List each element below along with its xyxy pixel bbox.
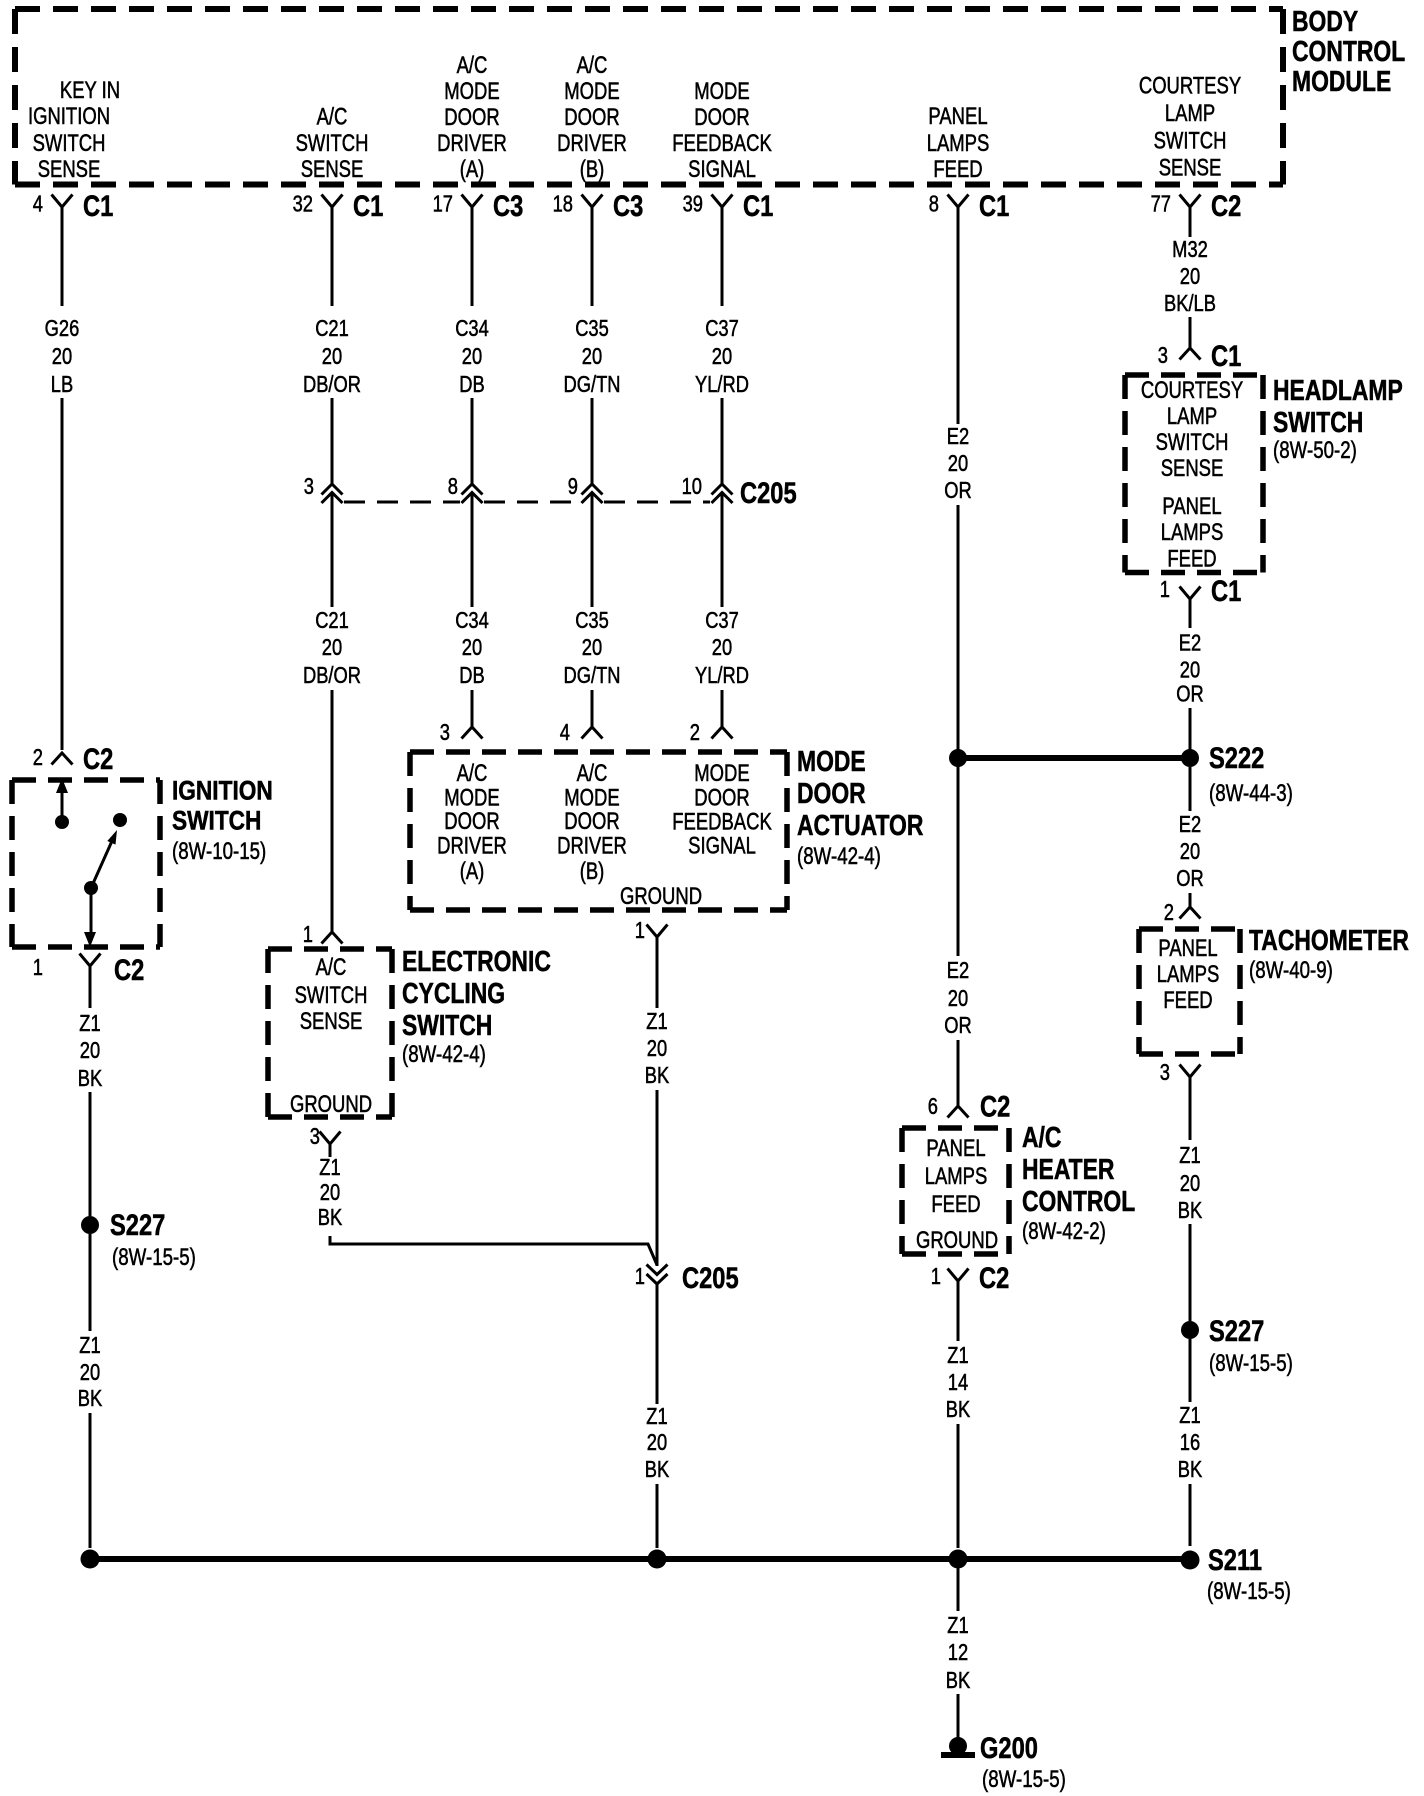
svg-text:SWITCH: SWITCH [1273, 405, 1363, 438]
svg-text:C21: C21 [315, 316, 349, 342]
wire C21 to connector C205 [331, 398, 334, 484]
connector C2 pin 2 male at ignition switch [52, 753, 73, 765]
svg-text:Z1: Z1 [947, 1343, 968, 1369]
svg-text:SWITCH: SWITCH [295, 982, 368, 1009]
wire C21 below C205 [331, 493, 334, 607]
connector C205 pin 1 in-line [647, 1265, 668, 1285]
svg-text:3: 3 [1160, 1060, 1170, 1086]
svg-text:DOOR: DOOR [694, 784, 749, 811]
svg-text:SWITCH: SWITCH [296, 130, 369, 157]
arrowhead down to box edge [84, 932, 96, 947]
svg-text:OR: OR [944, 478, 971, 504]
svg-text:Z1: Z1 [79, 1333, 100, 1359]
svg-text:20: 20 [462, 635, 482, 661]
svg-text:14: 14 [948, 1370, 969, 1396]
svg-text:DG/TN: DG/TN [564, 372, 621, 398]
svg-text:C2: C2 [1211, 189, 1241, 222]
connector C2 pin 6 male at heater control [948, 1106, 969, 1118]
svg-text:DOOR: DOOR [564, 104, 619, 131]
svg-text:1: 1 [1160, 577, 1170, 603]
svg-text:SENSE: SENSE [38, 156, 101, 183]
svg-text:Z1: Z1 [947, 1613, 968, 1639]
svg-text:16: 16 [1180, 1430, 1200, 1456]
svg-text:C2: C2 [980, 1090, 1010, 1123]
wire G26 from BCM pin 4 [61, 207, 64, 306]
connector C205 pin 10 in-line [712, 484, 733, 503]
wire Z1 from ground bus to G200 [957, 1568, 960, 1611]
wire Z1 to splice S227 [89, 1092, 92, 1216]
svg-text:COURTESY: COURTESY [1141, 377, 1243, 404]
svg-text:2: 2 [1164, 900, 1174, 926]
svg-text:2: 2 [690, 720, 700, 746]
svg-text:E2: E2 [947, 424, 969, 450]
svg-text:C1: C1 [83, 189, 113, 222]
connector C205 dashed gang line [344, 501, 710, 504]
svg-text:Z1: Z1 [646, 1404, 667, 1430]
svg-text:DB/OR: DB/OR [303, 372, 361, 398]
svg-text:(8W-50-2): (8W-50-2) [1273, 437, 1357, 464]
wire E2 to splice S222 [1189, 708, 1192, 758]
svg-text:20: 20 [322, 635, 342, 661]
svg-text:MODE: MODE [694, 760, 749, 787]
svg-text:SWITCH: SWITCH [1154, 127, 1227, 154]
svg-text:1: 1 [33, 955, 43, 981]
svg-text:A/C: A/C [577, 760, 608, 787]
switch blade with arrow [91, 841, 112, 888]
splice S227 [81, 1216, 99, 1234]
svg-text:C2: C2 [114, 953, 144, 986]
wire E2 to splice S222 [957, 505, 960, 758]
connector C205 pin 3 in-line [322, 484, 343, 503]
svg-text:(A): (A) [460, 156, 485, 183]
wire M32 to headlamp switch [1189, 317, 1192, 348]
svg-text:20: 20 [712, 344, 732, 370]
junction of Z1 at column 1 [81, 1550, 100, 1569]
svg-text:SENSE: SENSE [301, 156, 364, 183]
wire Z1 elbow to C205 [330, 1236, 657, 1265]
wire Z1 from S227 [1189, 1339, 1192, 1402]
svg-text:LAMP: LAMP [1167, 403, 1217, 430]
wire M32 from BCM pin 77 [1189, 207, 1192, 237]
connector C205 pin 9 in-line [582, 484, 603, 503]
svg-text:20: 20 [322, 344, 342, 370]
svg-text:20: 20 [712, 635, 732, 661]
svg-text:C37: C37 [705, 608, 739, 634]
svg-text:(8W-15-5): (8W-15-5) [982, 1766, 1066, 1793]
svg-text:FEED: FEED [931, 1191, 980, 1218]
svg-text:C21: C21 [315, 608, 349, 634]
svg-text:FEEDBACK: FEEDBACK [672, 808, 772, 835]
svg-text:DOOR: DOOR [694, 104, 749, 131]
svg-text:C1: C1 [1211, 339, 1241, 372]
wire E2 from BCM pin 8 [957, 207, 960, 424]
headlamp switch outline [1125, 375, 1263, 573]
splice S227 [1181, 1321, 1199, 1339]
svg-text:GROUND: GROUND [620, 883, 702, 910]
svg-text:LB: LB [51, 372, 73, 398]
svg-text:BK: BK [1178, 1198, 1202, 1224]
svg-text:CONTROL: CONTROL [1292, 34, 1405, 67]
svg-text:HEATER: HEATER [1022, 1152, 1115, 1185]
junction of Z1 at column 6 [949, 1550, 968, 1569]
svg-text:DRIVER: DRIVER [557, 130, 627, 157]
svg-text:BK: BK [946, 1397, 970, 1423]
svg-text:PANEL: PANEL [1162, 493, 1221, 520]
svg-text:E2: E2 [947, 958, 969, 984]
wire Z1 to ground G200 [957, 1694, 960, 1738]
svg-text:10: 10 [682, 474, 702, 500]
wire C35 to connector C205 [591, 398, 594, 484]
svg-text:BK: BK [318, 1205, 342, 1231]
wire E2 from S222 to tachometer [1189, 767, 1192, 811]
svg-text:G200: G200 [980, 1731, 1038, 1764]
svg-text:A/C: A/C [457, 760, 488, 787]
svg-text:ACTUATOR: ACTUATOR [797, 808, 923, 841]
connector pin 3 male at actuator [462, 727, 483, 739]
wire C37 to mode door actuator [721, 690, 724, 727]
switch pivot node [84, 881, 98, 895]
svg-text:DB: DB [459, 663, 484, 689]
svg-text:6: 6 [928, 1094, 938, 1120]
svg-text:M32: M32 [1172, 237, 1208, 263]
svg-text:FEEDBACK: FEEDBACK [672, 130, 772, 157]
svg-text:9: 9 [568, 474, 578, 500]
svg-text:FEED: FEED [933, 156, 982, 183]
svg-text:(8W-10-15): (8W-10-15) [172, 838, 266, 865]
electronic cycling switch outline [268, 949, 392, 1117]
svg-text:20: 20 [1180, 264, 1200, 290]
connector C205 pin 8 in-line [462, 484, 483, 503]
svg-text:DOOR: DOOR [797, 776, 866, 809]
svg-text:IGNITION: IGNITION [28, 103, 110, 130]
svg-text:Z1: Z1 [646, 1009, 667, 1035]
connector C3 pin 18 at BCM [582, 195, 603, 208]
connector C2 pin 77 at BCM [1180, 195, 1201, 208]
wire C34 to mode door actuator [471, 690, 474, 727]
svg-text:LAMP: LAMP [1165, 100, 1215, 127]
svg-text:BK: BK [645, 1063, 669, 1089]
connector C1 pin 4 at BCM [52, 195, 73, 208]
splice S222 [1181, 749, 1199, 767]
svg-text:8: 8 [448, 474, 458, 500]
arrowhead of switch blade [107, 830, 117, 845]
svg-text:1: 1 [635, 1264, 645, 1290]
svg-text:20: 20 [948, 986, 968, 1012]
connector pin 1 below actuator [647, 925, 668, 938]
splice junction at E2 feed [949, 749, 967, 767]
ignition switch output line [90, 888, 93, 936]
switch contact node [113, 813, 127, 827]
wire C21 from BCM pin 32 [331, 207, 334, 306]
svg-text:(8W-15-5): (8W-15-5) [1209, 1350, 1293, 1377]
connector pin 3 below cycling switch [320, 1132, 341, 1145]
svg-text:KEY IN: KEY IN [60, 77, 120, 104]
wire C37 from BCM pin 39 [721, 207, 724, 306]
svg-text:DOOR: DOOR [444, 104, 499, 131]
svg-text:BK: BK [946, 1668, 970, 1694]
svg-text:YL/RD: YL/RD [695, 372, 749, 398]
svg-text:BK: BK [1178, 1457, 1202, 1483]
svg-text:SIGNAL: SIGNAL [688, 832, 756, 859]
wire C35 to mode door actuator [591, 690, 594, 727]
svg-text:FEED: FEED [1163, 987, 1212, 1014]
svg-text:BK: BK [78, 1386, 102, 1412]
svg-text:20: 20 [1180, 658, 1200, 684]
svg-text:C2: C2 [979, 1261, 1009, 1294]
svg-text:(8W-42-2): (8W-42-2) [1022, 1218, 1106, 1245]
svg-text:S227: S227 [1209, 1314, 1264, 1347]
wire Z1 from tachometer [1189, 1077, 1192, 1140]
svg-text:PANEL: PANEL [928, 103, 987, 130]
wire Z1 from heater control [957, 1281, 960, 1341]
svg-text:DRIVER: DRIVER [437, 130, 507, 157]
svg-text:C1: C1 [979, 189, 1009, 222]
wire Z1 from ignition switch [89, 966, 92, 1008]
svg-text:Z1: Z1 [319, 1155, 340, 1181]
svg-text:3: 3 [1158, 343, 1168, 369]
svg-text:CYCLING: CYCLING [402, 976, 505, 1009]
connector C2 pin 1 below ignition switch [80, 954, 101, 967]
wire Z1 to splice S211 [1189, 1484, 1192, 1546]
svg-text:DRIVER: DRIVER [557, 832, 627, 859]
svg-text:BK/LB: BK/LB [1164, 291, 1216, 317]
svg-text:PANEL: PANEL [1158, 935, 1217, 962]
wire E2 to tachometer [1189, 893, 1192, 907]
tachometer outline [1139, 929, 1240, 1054]
svg-text:LAMPS: LAMPS [925, 1163, 988, 1190]
svg-text:OR: OR [1176, 866, 1203, 892]
svg-text:A/C: A/C [1022, 1120, 1062, 1153]
svg-text:S227: S227 [110, 1208, 165, 1241]
splice wire S222 [958, 755, 1190, 761]
svg-text:MODE: MODE [694, 78, 749, 105]
wire C34 to connector C205 [471, 398, 474, 484]
svg-text:(B): (B) [580, 156, 605, 183]
svg-text:20: 20 [647, 1036, 667, 1062]
svg-text:20: 20 [948, 451, 968, 477]
svg-text:(8W-44-3): (8W-44-3) [1209, 780, 1293, 807]
wire Z1 from S227 [89, 1234, 92, 1331]
wire C34 below C205 [471, 493, 474, 607]
svg-text:12: 12 [948, 1640, 968, 1666]
svg-text:20: 20 [80, 1038, 100, 1064]
switch contact node [55, 815, 69, 829]
svg-text:GROUND: GROUND [916, 1227, 998, 1254]
connector C1 pin 39 at BCM [712, 195, 733, 208]
connector pin 2 male at tachometer [1180, 907, 1201, 919]
svg-text:C3: C3 [613, 189, 643, 222]
svg-text:C34: C34 [455, 608, 489, 634]
svg-text:DB: DB [459, 372, 484, 398]
svg-text:DOOR: DOOR [444, 808, 499, 835]
svg-text:20: 20 [582, 635, 602, 661]
wire C37 to connector C205 [721, 398, 724, 484]
connector pin 2 male at actuator [712, 727, 733, 739]
svg-text:ELECTRONIC: ELECTRONIC [402, 944, 551, 977]
wire Z1 to connector C205 [656, 1090, 659, 1266]
svg-text:39: 39 [683, 192, 703, 218]
svg-text:DOOR: DOOR [564, 808, 619, 835]
svg-text:32: 32 [293, 192, 313, 218]
svg-text:C37: C37 [705, 316, 739, 342]
svg-text:(8W-42-4): (8W-42-4) [402, 1041, 486, 1068]
svg-text:A/C: A/C [577, 52, 608, 79]
svg-text:OR: OR [944, 1013, 971, 1039]
svg-text:DB/OR: DB/OR [303, 663, 361, 689]
svg-text:IGNITION: IGNITION [172, 776, 273, 806]
wire Z1 to splice S227 [1189, 1224, 1192, 1321]
svg-text:DRIVER: DRIVER [437, 832, 507, 859]
svg-text:20: 20 [320, 1180, 340, 1206]
svg-text:20: 20 [1180, 839, 1200, 865]
svg-text:20: 20 [52, 344, 72, 370]
connector pin 4 male at actuator [582, 727, 603, 739]
svg-text:20: 20 [647, 1430, 667, 1456]
wire Z1 below C205 [656, 1284, 659, 1404]
svg-text:Z1: Z1 [1179, 1403, 1200, 1429]
svg-text:C34: C34 [455, 316, 489, 342]
ground G200 [949, 1737, 967, 1755]
wire C21 to electronic cycling switch [331, 690, 334, 932]
svg-text:BODY: BODY [1292, 4, 1358, 37]
svg-text:OR: OR [1176, 682, 1203, 708]
wire C37 below C205 [721, 493, 724, 607]
svg-text:SENSE: SENSE [1159, 154, 1222, 181]
svg-text:Z1: Z1 [79, 1011, 100, 1037]
svg-text:1: 1 [931, 1264, 941, 1290]
svg-text:C35: C35 [575, 316, 609, 342]
svg-text:C35: C35 [575, 608, 609, 634]
wire Z1 from cycling switch [329, 1144, 332, 1157]
svg-text:MODE: MODE [797, 744, 866, 777]
svg-text:GROUND: GROUND [290, 1091, 372, 1118]
svg-text:PANEL: PANEL [926, 1135, 985, 1162]
svg-text:LAMPS: LAMPS [1157, 961, 1220, 988]
svg-text:(A): (A) [460, 858, 485, 885]
connector C1 pin 8 at BCM [948, 195, 969, 208]
svg-text:E2: E2 [1179, 812, 1201, 838]
wire Z1 to ground bus [656, 1484, 659, 1548]
ignition switch internal feed line [61, 786, 64, 822]
svg-text:YL/RD: YL/RD [695, 663, 749, 689]
svg-text:77: 77 [1151, 192, 1171, 218]
svg-text:17: 17 [433, 192, 453, 218]
svg-text:C2: C2 [83, 742, 113, 775]
wire E2 to a/c heater control [957, 1040, 960, 1106]
svg-text:E2: E2 [1179, 631, 1201, 657]
svg-text:LAMPS: LAMPS [927, 130, 990, 157]
svg-text:C3: C3 [493, 189, 523, 222]
svg-text:C1: C1 [353, 189, 383, 222]
svg-text:A/C: A/C [316, 954, 347, 981]
svg-text:3: 3 [310, 1124, 320, 1150]
svg-text:FEED: FEED [1167, 545, 1216, 572]
svg-text:A/C: A/C [457, 52, 488, 79]
svg-text:4: 4 [33, 192, 43, 218]
wire Z1 from actuator ground [656, 937, 659, 1008]
svg-text:C1: C1 [743, 189, 773, 222]
svg-text:SWITCH: SWITCH [33, 130, 106, 157]
svg-text:(8W-40-9): (8W-40-9) [1249, 957, 1333, 984]
svg-text:MODE: MODE [444, 78, 499, 105]
wire E2 from S222 to heater control [957, 758, 960, 956]
svg-text:CONTROL: CONTROL [1022, 1184, 1135, 1217]
svg-text:3: 3 [440, 720, 450, 746]
connector C2 pin 1 below heater control [948, 1269, 969, 1282]
svg-text:Z1: Z1 [1179, 1143, 1200, 1169]
svg-text:COURTESY: COURTESY [1139, 72, 1241, 99]
connector pin 3 below tachometer [1180, 1065, 1201, 1078]
svg-text:SWITCH: SWITCH [402, 1008, 492, 1041]
svg-text:G26: G26 [45, 316, 80, 342]
svg-text:C1: C1 [1211, 574, 1241, 607]
wire Z1 to ground bus [957, 1424, 960, 1548]
svg-text:(8W-15-5): (8W-15-5) [112, 1244, 196, 1271]
connector C1 pin 32 at BCM [322, 195, 343, 208]
svg-text:3: 3 [304, 474, 314, 500]
svg-text:A/C: A/C [317, 103, 348, 130]
svg-text:20: 20 [80, 1360, 100, 1386]
connector C3 pin 17 at BCM [462, 195, 483, 208]
wire Z1 to ground bus [89, 1413, 92, 1548]
svg-text:2: 2 [33, 745, 43, 771]
svg-text:SIGNAL: SIGNAL [688, 156, 756, 183]
connector C1 pin 1 below headlamp switch [1180, 587, 1201, 600]
connector pin 1 male at cycling switch [322, 932, 343, 944]
svg-text:C205: C205 [740, 476, 797, 509]
svg-text:BK: BK [645, 1457, 669, 1483]
svg-text:TACHOMETER: TACHOMETER [1249, 923, 1409, 956]
svg-text:1: 1 [303, 922, 313, 948]
wire E2 from headlamp switch [1189, 599, 1192, 628]
svg-text:DG/TN: DG/TN [564, 663, 621, 689]
mode door actuator outline [410, 752, 787, 910]
svg-text:SENSE: SENSE [1161, 455, 1224, 482]
svg-text:(8W-42-4): (8W-42-4) [797, 843, 881, 870]
svg-text:SWITCH: SWITCH [1156, 429, 1229, 456]
splice S211 [1181, 1551, 1200, 1570]
svg-text:LAMPS: LAMPS [1161, 519, 1224, 546]
arrowhead up to box edge [56, 778, 68, 793]
svg-text:MODULE: MODULE [1292, 64, 1391, 97]
svg-text:MODE: MODE [564, 78, 619, 105]
wire C34 from BCM pin 17 [471, 207, 474, 306]
svg-text:4: 4 [560, 720, 570, 746]
body control module outline [15, 9, 1283, 185]
connector C1 pin 3 male at headlamp switch [1180, 348, 1201, 360]
svg-text:(B): (B) [580, 858, 605, 885]
wire C35 from BCM pin 18 [591, 207, 594, 306]
junction of Z1 at column 5 [648, 1550, 667, 1569]
svg-text:1: 1 [635, 918, 645, 944]
svg-text:20: 20 [462, 344, 482, 370]
ground bus wire [90, 1556, 1190, 1562]
ignition switch outline [12, 780, 160, 947]
svg-text:SENSE: SENSE [300, 1008, 363, 1035]
svg-text:SWITCH: SWITCH [172, 806, 261, 836]
svg-text:8: 8 [929, 192, 939, 218]
svg-text:BK: BK [78, 1066, 102, 1092]
a/c heater control outline [902, 1128, 1009, 1254]
svg-text:C205: C205 [682, 1261, 739, 1294]
svg-text:(8W-15-5): (8W-15-5) [1207, 1578, 1291, 1605]
svg-text:20: 20 [1180, 1171, 1200, 1197]
svg-text:S222: S222 [1209, 741, 1264, 774]
svg-text:18: 18 [553, 192, 573, 218]
svg-text:HEADLAMP: HEADLAMP [1273, 373, 1403, 406]
wire G26 to ignition switch [61, 398, 64, 750]
svg-text:S211: S211 [1208, 1543, 1262, 1576]
